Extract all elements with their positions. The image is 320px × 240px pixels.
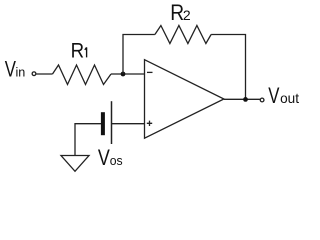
- node Vout terminal: [260, 98, 264, 102]
- svg-text:V: V: [98, 146, 110, 170]
- pin minus: [147, 71, 153, 73]
- label R1: [71, 40, 87, 63]
- node junction at inverting input: [121, 72, 126, 77]
- battery Vos long plate: [111, 101, 113, 144]
- wire feedback up: [123, 35, 155, 75]
- pin plus: [147, 121, 152, 126]
- svg-text:out: out: [280, 91, 299, 106]
- svg-text:V: V: [268, 84, 280, 109]
- label R2: [170, 0, 191, 25]
- svg-text:2: 2: [183, 7, 191, 23]
- node output junction: [243, 97, 248, 102]
- op-amp U1: [145, 60, 224, 139]
- wire Vin to R1: [36, 73, 52, 75]
- svg-text:os: os: [110, 153, 123, 169]
- wire output: [224, 98, 260, 100]
- wire battery to non-inverting input: [112, 123, 145, 125]
- wire R2 to output net: [211, 35, 245, 100]
- node Vin label: [5, 57, 26, 82]
- battery Vos short plate: [101, 112, 105, 135]
- wire battery to ground: [75, 124, 101, 156]
- svg-text:R: R: [71, 40, 84, 63]
- resistor R1: [53, 65, 112, 85]
- ground: [61, 156, 89, 172]
- wire R1 to inverting input: [111, 73, 145, 75]
- svg-text:in: in: [16, 64, 26, 79]
- node Vout label: [268, 84, 299, 109]
- label Vos: [98, 146, 123, 170]
- node Vin terminal: [32, 72, 36, 76]
- resistor R2: [155, 26, 211, 44]
